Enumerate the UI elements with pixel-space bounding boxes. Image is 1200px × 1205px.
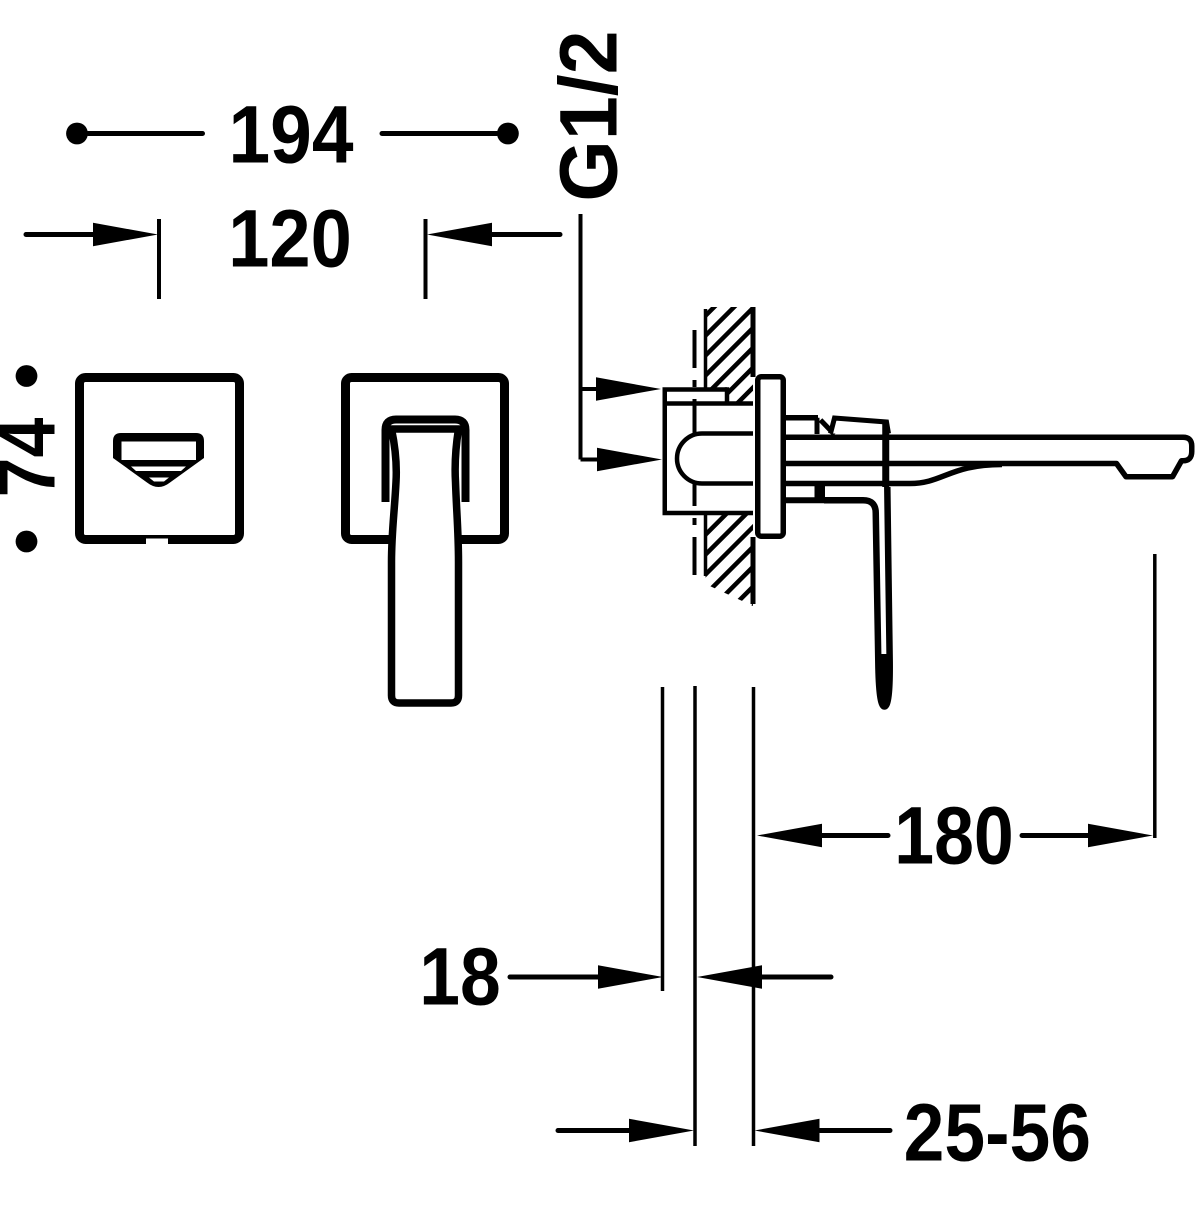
escutcheon (wall plate, side) bbox=[758, 377, 784, 537]
handle arch bbox=[386, 420, 466, 503]
svg-text:G1/2: G1/2 bbox=[542, 30, 633, 201]
G1/2 upper arrow bbox=[581, 387, 602, 391]
svg-text:25-56: 25-56 bbox=[904, 1088, 1091, 1178]
extension line 2 bbox=[693, 686, 697, 1146]
spout front inner window bbox=[122, 442, 197, 461]
centerline dash-dot bbox=[693, 330, 697, 575]
dim 120 right tick bbox=[424, 219, 428, 299]
wall inner edge upper bbox=[704, 309, 708, 390]
lever bracket line to escutcheon bbox=[786, 497, 830, 503]
right plate bbox=[346, 378, 505, 540]
G1/2 lower arrow bbox=[581, 458, 602, 462]
dim 74 top dot bbox=[16, 365, 38, 387]
dim 74 bottom dot bbox=[16, 531, 38, 553]
wall face lower bbox=[751, 537, 756, 604]
lever lower (white core) bbox=[824, 487, 890, 707]
svg-text:194: 194 bbox=[229, 88, 354, 180]
seam block bbox=[815, 482, 826, 501]
spout front lip sliver 2 bbox=[149, 478, 169, 482]
dim 25-56 bbox=[558, 1128, 629, 1133]
lever shaft behind spout bbox=[882, 424, 889, 487]
svg-text:18: 18 bbox=[419, 932, 500, 1022]
dim 120 left arrow bbox=[26, 232, 97, 237]
extension line spout tip bbox=[1153, 554, 1157, 838]
cartridge piece 1 bbox=[786, 418, 835, 435]
G1/2 leader vertical bbox=[579, 214, 583, 460]
extension line 1 bbox=[661, 687, 665, 991]
dim 180 bbox=[757, 824, 822, 847]
dim 194 left line bbox=[88, 131, 203, 136]
left plate bottom notch bbox=[146, 539, 168, 548]
spout front silhouette bbox=[113, 433, 204, 487]
handle bar (front) bbox=[392, 429, 459, 703]
wall face upper bbox=[751, 307, 756, 377]
spout top + tip bbox=[786, 437, 1192, 477]
dim 120 left tick bbox=[157, 219, 161, 299]
dim 194 left dot bbox=[66, 123, 88, 145]
dim 194 right dot bbox=[497, 123, 519, 145]
dim 120 right arrow bbox=[427, 223, 492, 246]
svg-text:180: 180 bbox=[894, 791, 1013, 881]
spout front lip sliver 1 bbox=[131, 467, 186, 472]
left plate bbox=[80, 378, 240, 540]
extension line 3 bbox=[752, 687, 756, 1146]
lever solid tip bbox=[878, 654, 891, 709]
lever base piece 2 bbox=[831, 418, 889, 434]
dim 194 right line bbox=[382, 131, 497, 136]
svg-text:74: 74 bbox=[0, 417, 73, 497]
housing underside bbox=[786, 465, 1002, 484]
wall inner edge lower bbox=[704, 513, 708, 576]
svg-text:120: 120 bbox=[228, 194, 352, 284]
inlet stadium bbox=[677, 434, 753, 484]
body (in-wall) outline bbox=[663, 387, 754, 513]
